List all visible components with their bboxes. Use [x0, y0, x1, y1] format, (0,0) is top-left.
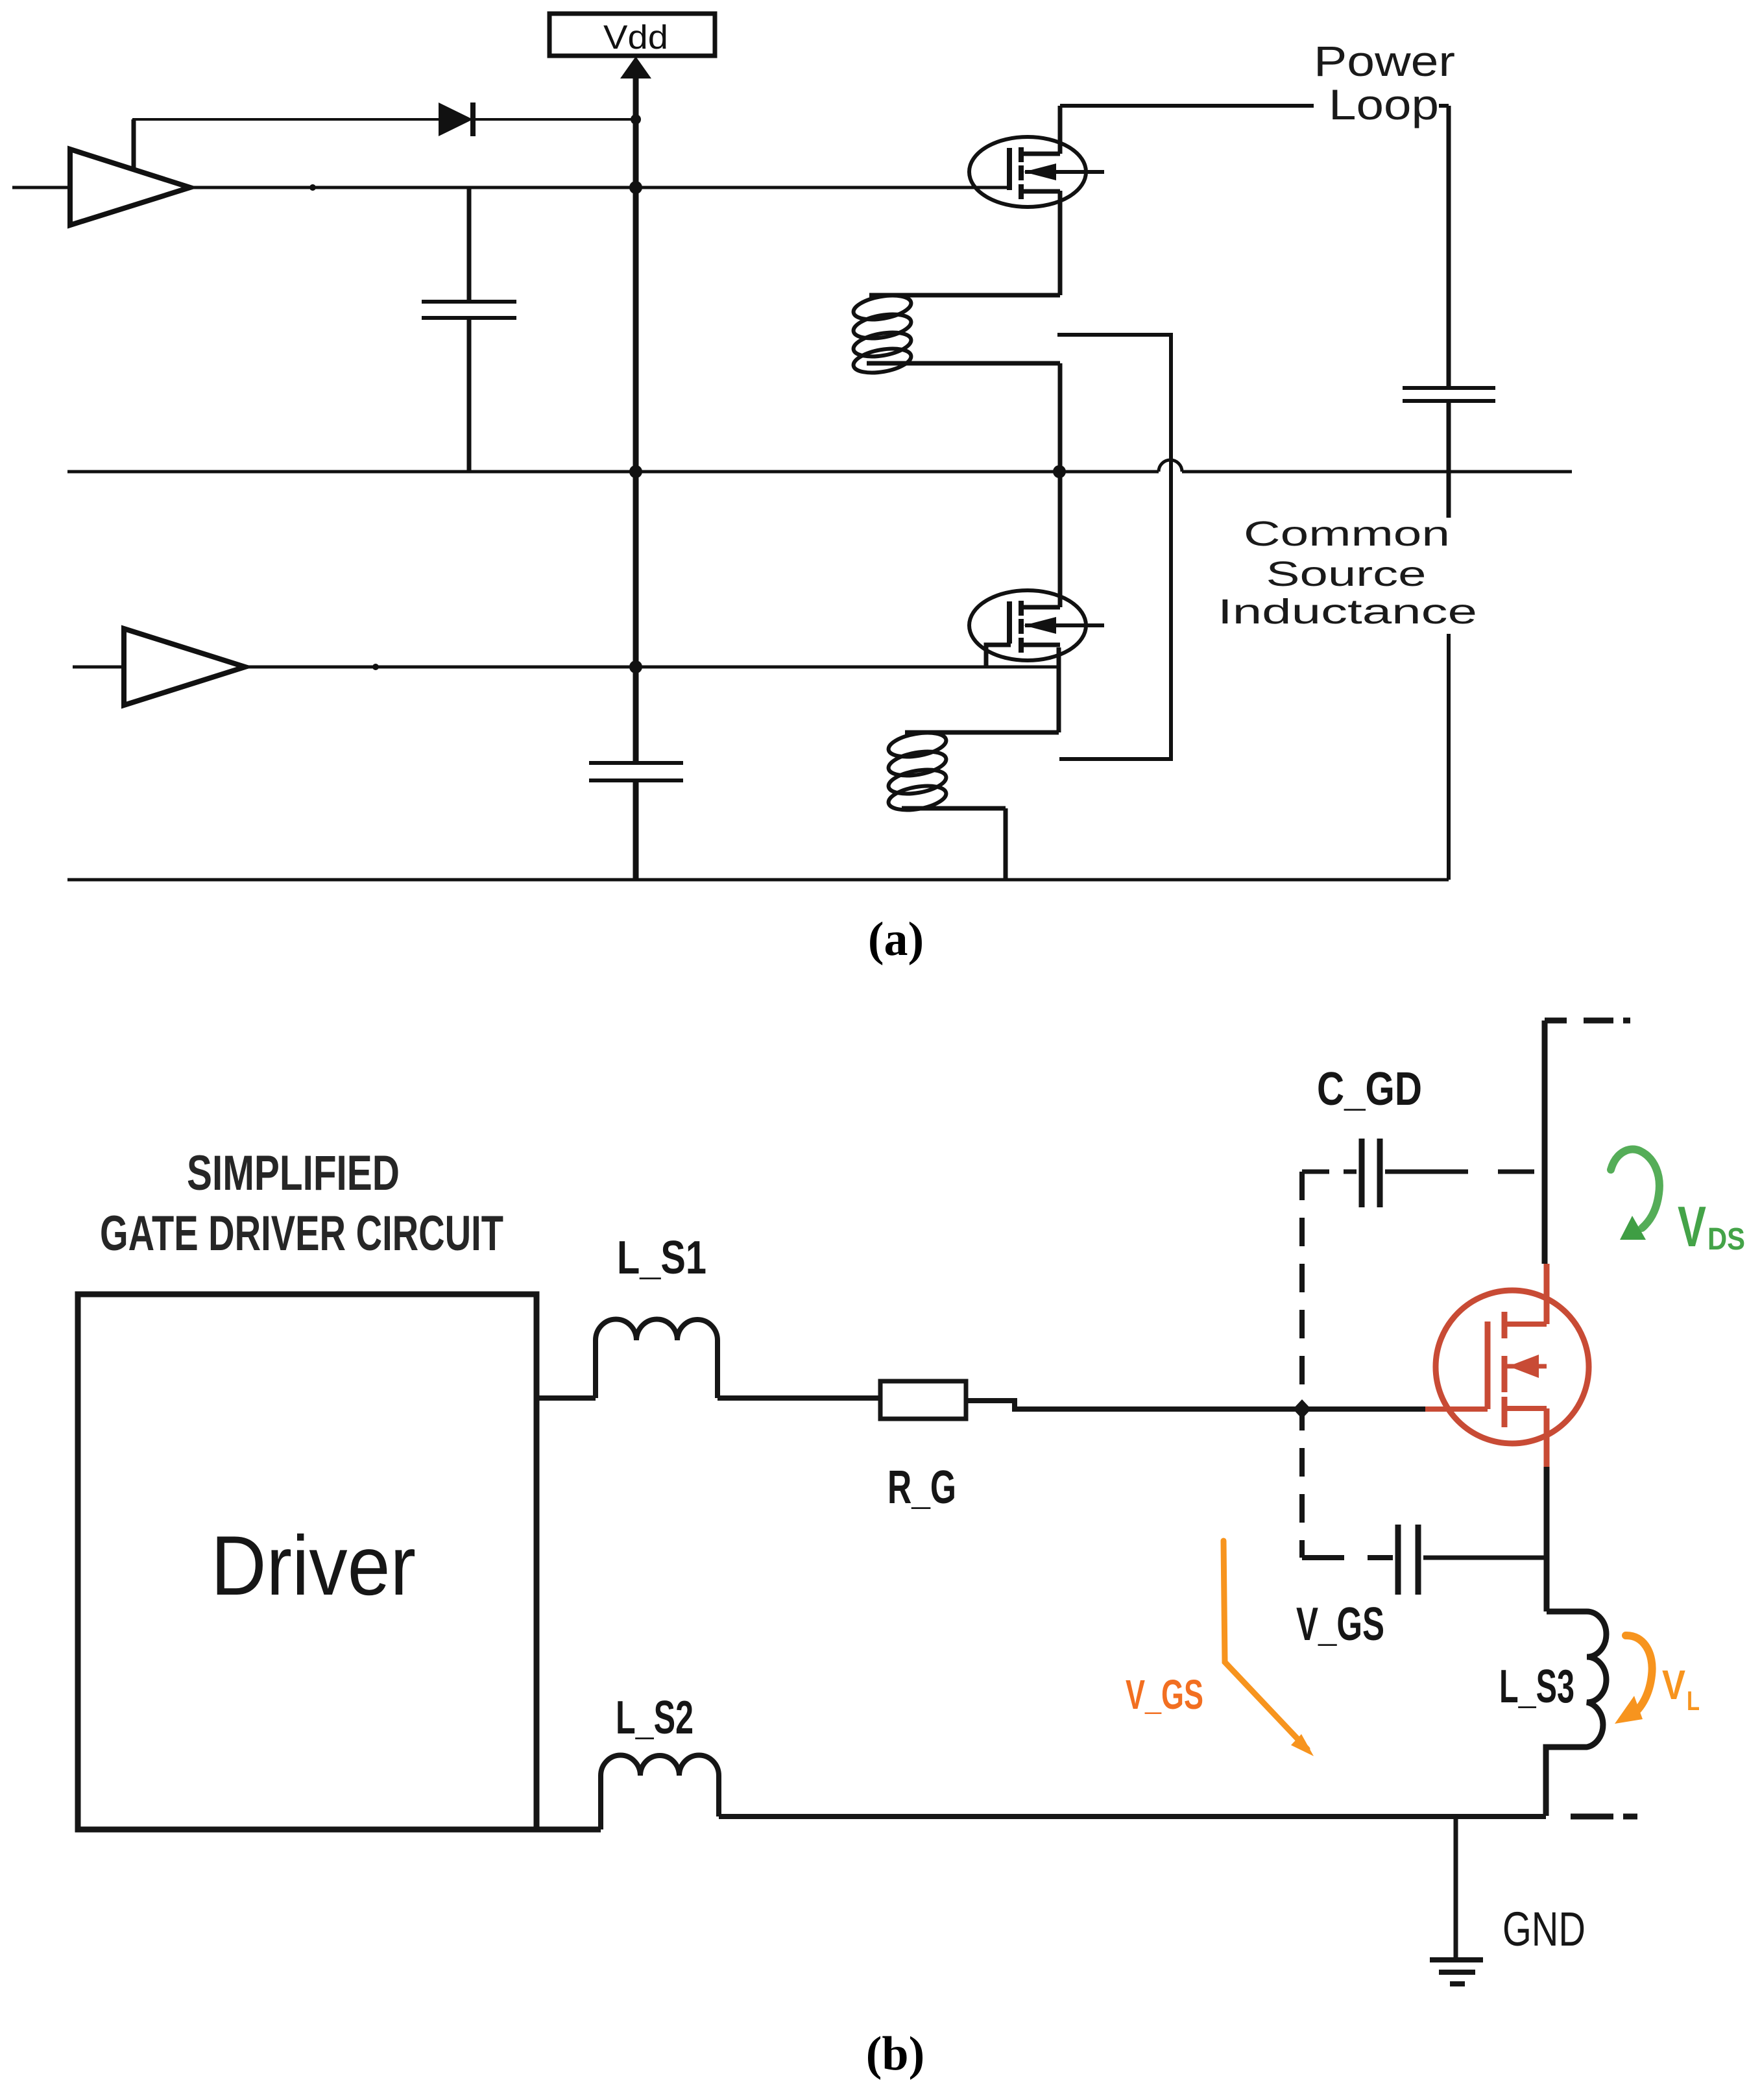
capacitor C3 bottom lead: [1447, 401, 1451, 518]
capacitor C_GS plates: [1395, 1525, 1401, 1595]
V_GS capacitor left dashed corner: [1302, 1555, 1344, 1560]
svg-text:V: V: [1678, 1194, 1706, 1259]
wire driver box bottom stub: [537, 1827, 601, 1833]
svg-text:SIMPLIFIED: SIMPLIFIED: [187, 1146, 400, 1201]
svg-text:Loop: Loop: [1329, 80, 1439, 128]
wire U2 input: [73, 666, 124, 669]
wire bootstrap diode feedback line: [132, 118, 636, 121]
wire hop over CSI bracket: [1159, 460, 1182, 472]
wire U1 input: [12, 186, 70, 189]
svg-text:DS: DS: [1707, 1222, 1745, 1257]
wire dashed drain continuation (top right): [1545, 1018, 1613, 1024]
capacitor C1 plates: [422, 300, 516, 304]
svg-text:(b): (b): [866, 2027, 924, 2081]
capacitor C_GD right lead (dashed): [1385, 1170, 1545, 1174]
wire top rail to power loop: [1060, 104, 1314, 108]
wire mid rail (switch node): [67, 470, 1159, 474]
svg-text:Vdd: Vdd: [603, 19, 668, 56]
wire M1 source vertical: [1058, 191, 1063, 295]
transistor M2 (low side MOSFET): [969, 590, 1104, 660]
node small dot on gate line 2: [372, 664, 379, 670]
resistor R_G: [880, 1381, 966, 1419]
svg-text:L_S2: L_S2: [616, 1692, 694, 1744]
svg-text:Common: Common: [1244, 514, 1450, 553]
capacitor C3 (DC link) plates: [1403, 386, 1495, 390]
V_DS green arc arrow: [1611, 1150, 1659, 1228]
capacitor C1 bottom lead: [467, 318, 472, 472]
inductor L1 (top source parasitic): [852, 291, 913, 376]
buffer U2 (bottom gate driver): [124, 629, 245, 705]
node gate line / Vdd rail junction: [629, 181, 642, 194]
transistor M3 (red power MOSFET): [1425, 1264, 1589, 1467]
inductor L2 (bottom source parasitic): [887, 729, 948, 814]
diode D1 cathode bar: [470, 103, 476, 136]
capacitor C_GD left lead: [1302, 1170, 1357, 1174]
svg-text:L_S3: L_S3: [1499, 1661, 1574, 1713]
wire driver output: [537, 1395, 596, 1401]
node mid rail / M2 drain junction: [1053, 465, 1066, 478]
wire M2 drain vertical: [1058, 472, 1063, 607]
node gate junction: [1293, 1399, 1311, 1419]
svg-text:L_S1: L_S1: [617, 1232, 706, 1284]
svg-text:(a): (a): [868, 913, 924, 966]
capacitor C2 plates: [589, 761, 683, 765]
svg-text:R_G: R_G: [887, 1462, 956, 1514]
V_L orange arc arrow: [1626, 1635, 1652, 1716]
wire L1 bottom to switch node: [867, 361, 1060, 366]
node diode-Vdd junction: [631, 114, 641, 125]
svg-text:V_GS: V_GS: [1126, 1671, 1203, 1718]
svg-text:Driver: Driver: [211, 1518, 416, 1613]
wire bottom rail (b): [719, 1814, 1546, 1819]
wire M2 source vertical: [1057, 647, 1061, 732]
svg-text:Power: Power: [1314, 37, 1455, 85]
wire M1 source to L1 top: [869, 293, 1060, 298]
svg-text:C_GD: C_GD: [1317, 1063, 1422, 1115]
svg-text:V_GS: V_GS: [1296, 1599, 1384, 1650]
wire feedback tap from buffer U1: [132, 119, 136, 170]
buffer U1 (top gate driver): [70, 149, 190, 225]
wire right vertical below CSI text: [1447, 634, 1451, 880]
wire U2 output to M2 gate: [245, 666, 1059, 669]
diode D1: [439, 103, 473, 136]
svg-text:GND: GND: [1502, 1902, 1586, 1956]
wire U1 output to M1 gate: [190, 186, 1009, 189]
wire common source inductance bracket: [1057, 335, 1171, 759]
inductor L_S3: [1546, 1611, 1606, 1816]
svg-text:Inductance: Inductance: [1218, 592, 1477, 631]
wire dashed rail continuation: [1571, 1814, 1613, 1820]
svg-text:V: V: [1662, 1661, 1685, 1708]
Vdd supply box: [549, 14, 715, 56]
wire power loop right vertical: [1447, 106, 1451, 388]
wire drain vertical: [1542, 1020, 1548, 1264]
Vdd arrowhead: [620, 56, 651, 78]
node small dot on gate line: [309, 184, 316, 191]
svg-text:L: L: [1687, 1685, 1700, 1716]
node gate line 2 / Vdd rail junction: [629, 660, 642, 673]
wire Vdd vertical rail: [633, 77, 639, 763]
wire source vertical (black): [1544, 1467, 1550, 1611]
wire M2 source to L2 top: [905, 730, 1059, 735]
capacitor C_GS right lead: [1423, 1556, 1547, 1560]
capacitor C1 top lead: [467, 187, 472, 302]
wire dashed C_GD branch vertical: [1299, 1172, 1305, 1558]
svg-text:GATE DRIVER CIRCUIT: GATE DRIVER CIRCUIT: [100, 1206, 503, 1261]
ground GND: [1454, 1816, 1458, 1960]
V_GS orange arrow: [1224, 1541, 1307, 1749]
Driver box: [78, 1294, 537, 1829]
wire M1 drain vertical: [1058, 106, 1063, 154]
node mid rail / Vdd rail junction: [629, 465, 642, 478]
wire bottom rail: [67, 878, 1449, 882]
inductor L_S2: [601, 1755, 719, 1829]
capacitor C_GD plates: [1359, 1139, 1365, 1207]
wire L2 bottom lead: [902, 806, 1006, 811]
wire R_G output with step: [966, 1401, 1425, 1409]
wire M2 gate jog: [986, 645, 1011, 667]
svg-text:Source: Source: [1266, 555, 1427, 594]
wire L_S1 to R_G: [718, 1395, 880, 1401]
inductor L_S1: [596, 1319, 718, 1398]
